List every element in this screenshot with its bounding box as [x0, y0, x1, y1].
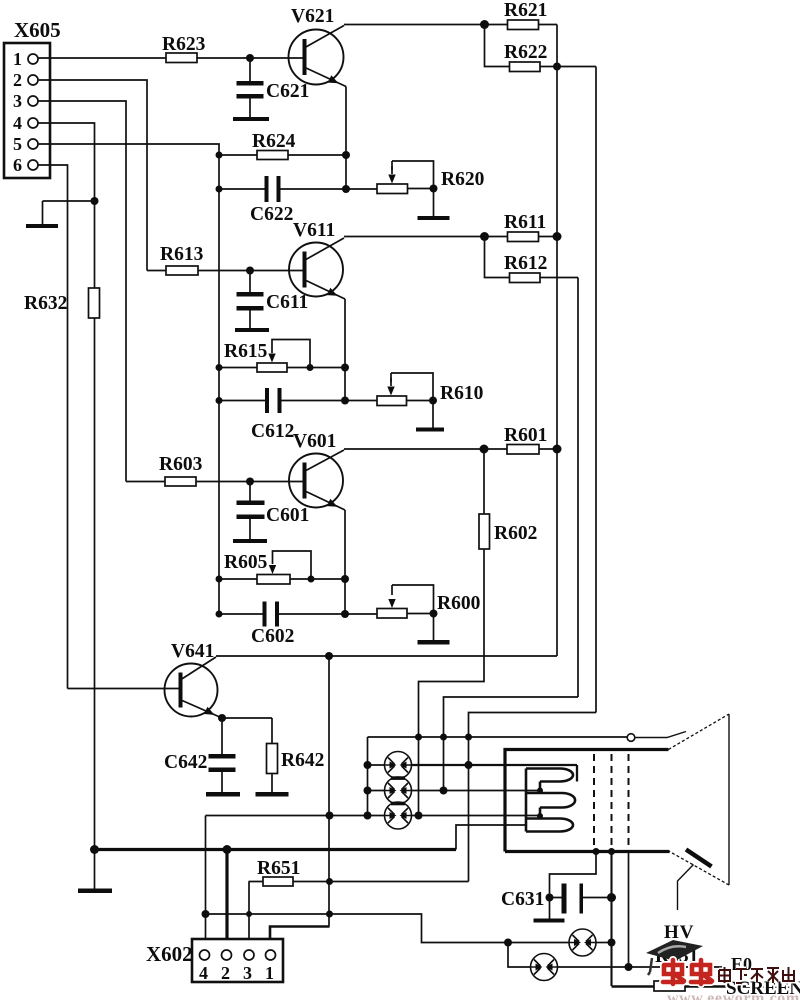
svg-text:R615: R615 [224, 341, 268, 362]
svg-text:6: 6 [13, 155, 22, 175]
node gun2 right rail [440, 787, 448, 795]
node C602 right [341, 610, 349, 618]
node pin4 ground junction [91, 197, 99, 205]
svg-text:R613: R613 [160, 244, 204, 265]
node gun3 left [364, 812, 372, 820]
node R611 right junction [553, 232, 562, 241]
wire pin2 to R613 [38, 80, 147, 271]
node pin3 y914 [246, 911, 252, 917]
watermark bug glyph 1 [663, 960, 684, 984]
svg-text:2: 2 [13, 70, 22, 90]
svg-text:V621: V621 [291, 6, 334, 27]
wire gun2 line [368, 790, 541, 792]
svg-text:C642: C642 [164, 752, 207, 773]
ground R610 [432, 401, 434, 428]
terminal G1 open circle [627, 734, 635, 742]
X605 pin 4 [28, 118, 38, 128]
capacitor C601 [249, 482, 251, 540]
wire pin6 to V641 base [38, 165, 179, 689]
X602 pin 3 [244, 950, 254, 960]
wire pin2 up thick [225, 850, 228, 956]
node C601 top junction [246, 478, 254, 486]
ground C601 [233, 539, 267, 543]
wire rail x557 [556, 25, 558, 657]
resistor R621 [485, 24, 558, 26]
node R605 left [216, 576, 223, 583]
svg-text:C601: C601 [266, 505, 309, 526]
wire R623 to V621 base [197, 57, 303, 59]
resistor R603 [126, 481, 303, 483]
svg-text:C631: C631 [501, 889, 544, 910]
svg-text:C602: C602 [251, 626, 294, 647]
svg-text:R605: R605 [224, 552, 268, 573]
svg-text:2: 2 [221, 963, 230, 983]
node C602 left [216, 611, 223, 618]
node R615 left [216, 364, 223, 371]
resistor R611 [485, 236, 558, 238]
svg-text:V601: V601 [293, 431, 336, 452]
X605 pin 6 [28, 160, 38, 170]
svg-text:3: 3 [243, 963, 252, 983]
wire y914 line [206, 914, 570, 943]
rheostat R605 [219, 578, 345, 580]
svg-text:R602: R602 [494, 523, 537, 544]
wire lamp1 right [596, 942, 612, 944]
wire V611 collector rail [344, 236, 485, 238]
node G1 x418.5 [415, 734, 422, 741]
node G1 x468.5 [465, 734, 472, 741]
wire V641 collector drop [328, 656, 330, 927]
wire grid line G1 [368, 736, 628, 738]
node y914 x329 [326, 911, 333, 918]
wire HV lead [678, 865, 694, 911]
node R620 right [430, 185, 438, 193]
svg-text:X605: X605 [14, 18, 61, 42]
lamp 2 [531, 954, 558, 981]
wire pin1 to R623 [38, 57, 166, 59]
gun heater bar bottom [391, 802, 405, 806]
svg-text:HV: HV [664, 922, 695, 943]
ground R600 [433, 614, 435, 641]
wire rail x578 jog to gun2 [444, 697, 579, 791]
resistor R624 [219, 154, 346, 156]
svg-text:R651: R651 [257, 858, 300, 879]
rheostat R610 [377, 396, 407, 406]
svg-text:R623: R623 [162, 34, 206, 55]
node R615 wiper [307, 364, 314, 371]
wire lamp2 branch [508, 943, 531, 968]
ground main rail [94, 850, 96, 889]
capacitor C622 [219, 188, 377, 190]
resistor R631 [654, 981, 685, 991]
node coil2 tap [537, 788, 543, 794]
node coil3 tap [537, 813, 543, 819]
node E0 line [625, 963, 633, 971]
svg-text:R601: R601 [504, 425, 547, 446]
node V641 collector junction [325, 652, 333, 660]
wire gun1 line [368, 764, 385, 766]
wire V601 collector rail [344, 448, 484, 450]
wire pin5 common line [38, 144, 219, 614]
node rail pin2 [223, 845, 232, 854]
rheostat R615 [219, 367, 345, 369]
yoke coil 2 [526, 793, 575, 816]
svg-text:R611: R611 [504, 212, 546, 233]
X605 pin 3 [28, 96, 38, 106]
node R601 right junction [553, 445, 562, 454]
wire rail x596 [595, 67, 597, 713]
node C611 top junction [246, 267, 254, 275]
svg-text:R603: R603 [159, 454, 203, 475]
node V641 emitter junction [218, 714, 226, 722]
watermark site name glyphs [719, 967, 794, 983]
X605 pin 1 [28, 54, 38, 64]
node C631 left [546, 894, 554, 902]
ground C642 [206, 792, 240, 797]
CRT neck box [505, 750, 670, 852]
resistor R623 [166, 53, 197, 63]
resistor R622 [485, 25, 597, 67]
svg-text:R621: R621 [504, 0, 547, 21]
wire pin4 to ground junction [38, 123, 95, 288]
wire R602 jog to gun3 rail [419, 656, 485, 816]
ground C621 [233, 117, 269, 121]
svg-text:1: 1 [265, 963, 274, 983]
watermark cap [646, 940, 703, 961]
node y942 x508 [504, 939, 512, 947]
resistor R642 [222, 718, 272, 792]
wire gun cathode column [367, 737, 369, 816]
wire rail x596 jog down [469, 713, 597, 882]
main ground rail [95, 848, 457, 851]
node gun2 left [364, 787, 372, 795]
svg-text:C622: C622 [250, 204, 293, 225]
CRT funnel [669, 714, 730, 885]
node C612 right [341, 397, 349, 405]
node rail left [90, 845, 99, 854]
node neck bottom x611.5 [608, 848, 615, 855]
anode cap bar [686, 850, 712, 867]
node R621 left junction [480, 20, 489, 29]
gun heater bar top [391, 776, 405, 780]
node C622 left [216, 186, 223, 193]
svg-text:5: 5 [13, 134, 22, 154]
wire x611 down [610, 852, 612, 987]
node R624 right [342, 151, 350, 159]
node gun1 right rail [465, 761, 473, 769]
node neck bottom x596 [593, 848, 600, 855]
X602 pin 4 [200, 950, 210, 960]
svg-text:4: 4 [13, 113, 22, 133]
svg-text:V641: V641 [171, 641, 214, 662]
node G1 x443.5 [440, 734, 447, 741]
node R605 right [341, 575, 349, 583]
core dashed line 2 [611, 754, 613, 848]
capacitor C611 [249, 271, 251, 329]
transistor V601 [289, 454, 343, 508]
wire V611 emitter down [344, 299, 346, 401]
ground C611 [235, 328, 269, 332]
watermark bug glyph 2 [691, 960, 712, 984]
node R601 left junction [480, 445, 489, 454]
wire V641 collector line [216, 655, 557, 657]
X602 pin 1 [266, 950, 276, 960]
node pin4 y914 [202, 910, 210, 918]
svg-text:R632: R632 [24, 293, 67, 314]
svg-text:X602: X602 [146, 942, 193, 966]
wire rail x578 [577, 278, 579, 698]
ground R620 [433, 189, 435, 217]
ground R642 [256, 792, 289, 797]
svg-text:C621: C621 [266, 81, 309, 102]
X605 pin 5 [28, 139, 38, 149]
capacitor C621 [249, 58, 251, 117]
node C612 left [216, 397, 223, 404]
wire R632 down to rail [94, 318, 96, 850]
resistor R632 [89, 288, 100, 318]
node C622 right [342, 185, 350, 193]
switch arm G1 [635, 732, 686, 738]
svg-text:3: 3 [13, 91, 22, 111]
electron gun 1 [385, 752, 412, 779]
node lamp1 right [608, 939, 616, 947]
rheostat R620 [377, 184, 408, 194]
wire pin1 jog [270, 927, 330, 951]
electron gun 2 [385, 777, 412, 804]
connector X605 box [4, 43, 50, 178]
node R624 left [216, 152, 223, 159]
wire gun3 line [206, 815, 541, 817]
wire V621 collector rail [344, 24, 485, 26]
node gun3 right rail [415, 812, 423, 820]
svg-text:R624: R624 [252, 131, 296, 152]
resistor R613 [147, 270, 303, 272]
transistor V611 [289, 243, 343, 297]
yoke coil 3 [526, 819, 573, 832]
svg-text:R612: R612 [504, 253, 547, 274]
capacitor C612 [219, 400, 377, 402]
node gun1 left [364, 761, 372, 769]
capacitor C602 [219, 613, 377, 615]
wire pin3 to R603 [38, 101, 126, 482]
svg-text:R610: R610 [440, 383, 483, 404]
capacitor C642 [221, 718, 223, 792]
svg-text:R642: R642 [281, 750, 324, 771]
svg-text:C612: C612 [251, 421, 294, 442]
wire C631 left to neck [550, 852, 597, 898]
yoke coil 1 [526, 769, 573, 791]
wire rail step to yoke [456, 825, 526, 850]
transistor V621 [289, 30, 344, 85]
node R651 right junction [326, 878, 333, 885]
connector X602 box [192, 939, 283, 982]
resistor R601 [484, 448, 557, 450]
svg-text:R620: R620 [441, 169, 484, 190]
node R615 right [341, 364, 349, 372]
resistor R602 [483, 449, 485, 656]
ground X605 [43, 201, 95, 224]
svg-text:C611: C611 [266, 292, 308, 313]
lamp 1 [569, 929, 596, 956]
node R622 right junction [553, 63, 561, 71]
node R605 wiper [308, 576, 315, 583]
node C631 right [607, 893, 616, 902]
wire x628 down [628, 852, 630, 968]
X605 pin 2 [28, 75, 38, 85]
wire pin4 up [205, 816, 207, 956]
X602 pin 2 [222, 950, 232, 960]
svg-text:R622: R622 [504, 42, 547, 63]
core dashed line 3 [628, 754, 630, 848]
svg-text:1: 1 [13, 49, 22, 69]
wire V601 emitter down [344, 510, 346, 614]
resistor R612 [485, 237, 579, 278]
node R611 left junction [480, 232, 489, 241]
svg-text:R600: R600 [437, 593, 480, 614]
wire pin3 up [248, 882, 250, 956]
electron gun 3 [385, 802, 412, 829]
ground C631 [549, 898, 551, 919]
node R610 right [429, 397, 437, 405]
wire screen line [612, 985, 796, 987]
node R600 right [430, 610, 438, 618]
node C621 top junction [246, 54, 254, 62]
wire V621 emitter down [345, 87, 347, 190]
rheostat R600 [377, 609, 407, 619]
svg-text:www.eeworm.com: www.eeworm.com [667, 990, 800, 1000]
svg-text:V611: V611 [293, 220, 335, 241]
core dashed line 1 [593, 754, 595, 848]
svg-text:4: 4 [199, 963, 208, 983]
resistor R651 [249, 881, 469, 883]
wire lamp2 right E0 line [558, 966, 723, 968]
node gun3 collector tap [326, 812, 334, 820]
yoke left bus [525, 769, 528, 832]
transistor V641 [165, 664, 218, 717]
capacitor C631 [550, 897, 612, 899]
